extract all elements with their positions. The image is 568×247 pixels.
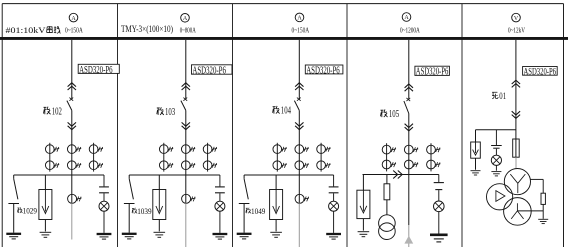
- border frame left: [1, 4, 3, 247]
- wire feeder through CT block: [298, 110, 300, 202]
- current transformer TA5 bay4: [404, 160, 413, 169]
- earthing switch label 欣1029: [17, 207, 22, 213]
- indicator lamp HL: [215, 201, 225, 211]
- indicator lamp HL: [99, 201, 109, 211]
- indicator lamp HL: [329, 201, 339, 211]
- busbar label 线: [54, 26, 61, 33]
- drawout contact upper chevron bay5: [512, 80, 520, 87]
- indicator lamp HL bay4: [434, 201, 445, 212]
- wire CT stub left: [276, 143, 278, 172]
- current transformer TA1: [273, 145, 282, 154]
- drawout contact lower chevron bay5: [512, 111, 520, 118]
- current transformer TA7: [295, 194, 304, 203]
- capacitor divider plate bottom: [329, 192, 339, 194]
- wire winding star point to damping resistor: [530, 178, 543, 180]
- current transformer TA6: [317, 161, 326, 170]
- relay box ASD320-P6: [305, 65, 343, 74]
- capacitor divider plate bottom bay4: [435, 189, 442, 191]
- svg-text:ASD320-P6: ASD320-P6: [416, 67, 449, 78]
- earthing switch 欣1029: [13, 175, 15, 179]
- metering voltage transformer TV winding 1: [379, 215, 396, 232]
- current transformer TA3: [203, 145, 212, 154]
- wire CT stub right: [320, 143, 322, 172]
- drawout contact upper chevron: [405, 84, 413, 91]
- drawout contact lower chevron: [182, 122, 190, 129]
- relay box ASD320-P6: [523, 67, 558, 76]
- current transformer TA4 bay4: [382, 160, 391, 169]
- capacitor divider plate top bay4: [438, 175, 440, 183]
- capacitor divider plate bottom: [215, 192, 225, 194]
- svg-text:105: 105: [389, 108, 400, 120]
- current transformer TA4: [159, 161, 168, 170]
- ground for earthing switch: [6, 233, 21, 235]
- incoming cable arrow: [408, 225, 410, 247]
- column divider 3: [346, 4, 348, 247]
- ammeter PA4: [402, 13, 411, 22]
- ammeter PA2: [181, 13, 190, 22]
- surge arrester F: [158, 175, 160, 190]
- breaker label 欣104: [273, 106, 280, 114]
- fuse FU bay5: [513, 139, 520, 157]
- relay box ASD320-P6: [192, 65, 233, 74]
- wire CT stub right: [430, 143, 432, 171]
- ground for arrester: [40, 231, 52, 233]
- capacitor divider plate top: [103, 175, 105, 186]
- svg-text:A: A: [71, 16, 76, 22]
- surge arrester F: [44, 175, 46, 190]
- ammeter PA3: [295, 13, 304, 22]
- ground for PT neutral: [538, 218, 548, 220]
- ground for lamp branch: [213, 233, 228, 235]
- wire branch bus: [129, 174, 220, 176]
- svg-text:0~150A: 0~150A: [65, 25, 83, 34]
- svg-text:0~800A: 0~800A: [180, 25, 197, 34]
- svg-text:1029: 1029: [23, 206, 38, 216]
- earthing switch label 欣1049: [246, 208, 251, 214]
- wire outgoing cable tail: [71, 203, 73, 239]
- svg-text:A: A: [297, 16, 302, 22]
- wire outgoing cable tail: [298, 203, 300, 247]
- voltage transformer TV primary winding: [504, 169, 530, 195]
- drawout contact upper chevron: [295, 83, 303, 90]
- ground for lamp branch: [97, 233, 112, 235]
- current transformer TA6: [203, 161, 212, 170]
- current transformer TA1: [159, 145, 168, 154]
- current transformer TA5: [67, 161, 76, 170]
- wire CT stub left: [49, 143, 51, 172]
- svg-text:0~150A: 0~150A: [292, 25, 310, 34]
- circuit breaker 欣104: [297, 98, 301, 101]
- svg-text:1039: 1039: [137, 206, 152, 216]
- current transformer TA2: [295, 145, 304, 154]
- wire feeder drop from busbar: [515, 40, 517, 157]
- ground for lamp branch bay4: [430, 234, 448, 237]
- svg-text:#01:10kV: #01:10kV: [6, 25, 47, 35]
- svg-text:ASD320-P6: ASD320-P6: [306, 66, 340, 77]
- current transformer TA2: [181, 145, 190, 154]
- svg-text:0~12kV: 0~12kV: [508, 25, 525, 34]
- breaker label 欣102: [44, 107, 51, 115]
- svg-text:A: A: [183, 16, 188, 22]
- earthing switch 欣1049: [243, 175, 245, 179]
- drawout contact upper chevron: [68, 83, 76, 90]
- drawout contact lower chevron: [68, 122, 76, 129]
- ground for earthing switch: [122, 233, 137, 235]
- svg-text:TMY-3×(100×10): TMY-3×(100×10): [121, 24, 173, 35]
- current transformer TA2: [67, 145, 76, 154]
- current transformer TA7: [68, 194, 77, 203]
- ground for arrester bay5: [471, 170, 481, 172]
- svg-text:A: A: [404, 15, 409, 21]
- drawout contact lower chevron: [295, 122, 303, 129]
- wire feeder drop from busbar: [408, 40, 410, 100]
- ammeter PA1: [69, 13, 78, 22]
- surge arrester F bay4: [362, 175, 364, 191]
- drawout contact upper chevron: [182, 83, 190, 90]
- column divider 2: [232, 4, 234, 247]
- wire branch bus: [14, 174, 104, 176]
- drawout contact right chevron on PT branch: [393, 171, 402, 179]
- ground for arrester: [270, 231, 282, 233]
- damping resistor R: [541, 193, 545, 204]
- wire feeder drop from busbar: [71, 40, 73, 100]
- surge arrester F: [275, 175, 277, 190]
- svg-text:V: V: [514, 16, 519, 22]
- wire CT stub left: [163, 143, 165, 172]
- indicator lamp HL bay5: [491, 155, 501, 165]
- svg-text:103: 103: [165, 106, 176, 118]
- drawout contact lower chevron: [405, 124, 413, 131]
- svg-text:ASD320-P6: ASD320-P6: [524, 67, 557, 78]
- voltage transformer TV secondary winding delta: [487, 184, 513, 210]
- current transformer TA2 bay4: [404, 145, 413, 154]
- current transformer TA3: [89, 145, 98, 154]
- ground for arrester: [154, 231, 166, 233]
- circuit breaker 欣105: [406, 98, 410, 101]
- svg-text:0~1200A: 0~1200A: [400, 25, 420, 34]
- capacitor divider plate bottom: [99, 192, 109, 194]
- ground for lamp bay5: [491, 171, 501, 173]
- capacitor plate bottom bay5: [493, 147, 499, 149]
- column divider 1: [117, 4, 119, 247]
- earthing switch 欣1039: [128, 175, 130, 179]
- capacitor plate top bay5: [495, 130, 497, 145]
- relay box ASD320-P6: [78, 64, 119, 73]
- current transformer TA6: [89, 161, 98, 170]
- capacitor divider plate top: [219, 175, 221, 186]
- wire fuse to PT: [515, 157, 517, 169]
- ground for earthing switch: [237, 233, 252, 235]
- circuit breaker 欣102: [69, 98, 73, 101]
- wire branch bus: [244, 174, 334, 176]
- svg-text:ASD320-P6: ASD320-P6: [79, 65, 113, 76]
- breaker label 欣105: [381, 109, 388, 117]
- current transformer TA5: [295, 161, 304, 170]
- wire feeder through CT block: [185, 110, 187, 202]
- svg-text:1049: 1049: [251, 206, 266, 216]
- current transformer TA7: [182, 194, 191, 203]
- current transformer TA1: [45, 145, 54, 154]
- surge arrester F bay5: [475, 130, 477, 142]
- busbar #01 10kV: [0, 37, 568, 40]
- capacitor divider plate top: [333, 175, 335, 186]
- current transformer TA4: [45, 161, 54, 170]
- fuse FU metering PT: [386, 175, 388, 184]
- svg-text:01: 01: [499, 91, 506, 102]
- wire outgoing cable tail: [185, 203, 187, 247]
- circuit breaker 欣103: [183, 98, 187, 101]
- svg-text:ASD320-P6: ASD320-P6: [192, 65, 226, 76]
- ground for lamp branch: [326, 233, 341, 235]
- border frame top: [2, 3, 563, 5]
- wire CT stub left: [386, 143, 388, 171]
- wire auxiliary winding to ground point: [517, 210, 543, 212]
- current transformer TA4: [273, 161, 282, 170]
- current transformer TA6 bay4: [427, 160, 436, 169]
- PT truck label TV01: [492, 92, 498, 99]
- wire branch bus bay5: [476, 129, 516, 131]
- current transformer TA1 bay4: [382, 145, 391, 154]
- current transformer TA5: [181, 161, 190, 170]
- current transformer TA3: [317, 145, 326, 154]
- metering voltage transformer TV winding 2: [379, 223, 396, 240]
- voltage transformer TV auxiliary winding: [504, 198, 532, 226]
- current transformer TA3 bay4: [427, 145, 436, 154]
- relay box ASD320-P6: [415, 66, 450, 75]
- wire feeder through CT block: [71, 110, 73, 202]
- wire feeder drop from busbar: [185, 40, 187, 100]
- wire feeder through CT block: [408, 114, 410, 226]
- busbar label 母: [47, 26, 53, 33]
- earthing switch label 欣1039: [132, 208, 137, 214]
- svg-text:104: 104: [281, 105, 292, 117]
- column divider 4: [461, 4, 463, 247]
- wire CT stub right: [93, 143, 95, 172]
- wire branch bus bay4: [363, 174, 439, 176]
- wire CT stub right: [207, 143, 209, 172]
- wire feeder drop from busbar: [298, 40, 300, 100]
- voltmeter PV: [512, 13, 521, 22]
- breaker label 欣103: [157, 107, 164, 115]
- ground for arrester bay4: [358, 231, 370, 233]
- border frame right: [563, 4, 565, 247]
- svg-text:102: 102: [52, 105, 62, 117]
